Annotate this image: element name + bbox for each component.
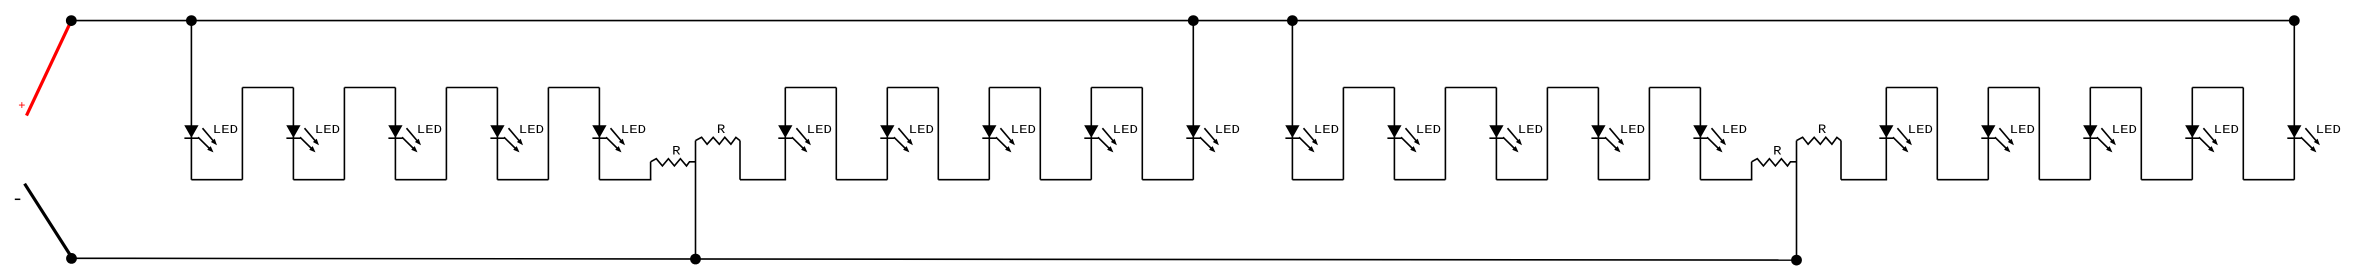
wire: zigzag riser	[1648, 88, 1650, 180]
junction dot: R3/R4 branch at bottom rail	[1791, 255, 1802, 266]
wire: vertical from + rail down through first LED of string	[190, 21, 192, 180]
wire: top horizontal segment	[1091, 87, 1142, 89]
wire: bottom horizontal segment	[395, 179, 446, 181]
wire: top horizontal segment	[1649, 87, 1700, 89]
LED D16	[1879, 126, 1912, 153]
LED D19	[2185, 126, 2218, 153]
LED D1	[184, 126, 217, 153]
wire: bottom horizontal from resistor to LED string	[1841, 179, 1887, 181]
LED D8	[982, 126, 1015, 153]
wire: vertical from resistors R3/R4 junction down to - rail	[1796, 141, 1798, 261]
svg-text:LED: LED	[621, 124, 646, 137]
wire: bottom horizontal segment	[497, 179, 548, 181]
wire: bottom horizontal segment	[836, 179, 887, 181]
wire: LED cathode vertical	[886, 88, 888, 180]
wire: zigzag riser	[937, 88, 939, 180]
wire: zigzag riser	[2242, 88, 2244, 180]
svg-text:LED: LED	[315, 124, 340, 137]
wire: vertical from resistors R1/R2 junction down to - rail	[695, 141, 697, 259]
wire: bottom horizontal segment	[1040, 179, 1091, 181]
wire: LED cathode vertical	[2191, 88, 2193, 180]
wire: LED anode vertical	[496, 88, 498, 180]
wire: LED anode vertical	[598, 88, 600, 180]
svg-text:R: R	[717, 122, 726, 137]
LED D9	[1084, 126, 1117, 153]
svg-text:LED: LED	[417, 124, 442, 137]
svg-text:LED: LED	[1215, 124, 1240, 137]
wire: top horizontal segment	[887, 87, 938, 89]
svg-text:R: R	[1773, 143, 1782, 158]
wire: LED cathode vertical	[2089, 88, 2091, 180]
LED D11	[1285, 126, 1318, 153]
wire: bottom horizontal segment	[2039, 179, 2090, 181]
wire: LED anode vertical	[292, 88, 294, 180]
positive supply lead	[27, 21, 72, 116]
svg-text:R: R	[672, 143, 681, 158]
wire: zigzag riser	[1444, 88, 1446, 180]
wire: vertical stub up to resistor	[1751, 162, 1753, 180]
svg-text:LED: LED	[1722, 124, 1747, 137]
wire: bottom horizontal segment	[1142, 179, 1193, 181]
wire: top horizontal segment	[548, 87, 599, 89]
LED D2	[286, 126, 319, 153]
wire: LED cathode vertical	[1090, 88, 1092, 180]
wire: top horizontal segment	[242, 87, 293, 89]
resistor R3	[1752, 159, 1797, 166]
wire: LED cathode vertical	[1885, 88, 1887, 180]
LED D10	[1186, 126, 1219, 153]
wire: top horizontal segment	[344, 87, 395, 89]
wire: bottom horizontal segment	[293, 179, 344, 181]
wire: bottom horizontal to resistor	[1700, 179, 1752, 181]
junction dot: string 4 tap on top rail	[2289, 15, 2300, 26]
wire: zigzag riser	[343, 88, 345, 180]
wire: top horizontal segment	[1988, 87, 2039, 89]
wire: bottom horizontal segment	[938, 179, 989, 181]
wire: LED cathode vertical	[784, 88, 786, 180]
LED D13	[1489, 126, 1522, 153]
LED D14	[1591, 126, 1624, 153]
LED D7	[880, 126, 913, 153]
wire: zigzag riser	[835, 88, 837, 180]
wire: LED anode vertical	[394, 88, 396, 180]
wire: LED anode vertical	[1393, 88, 1395, 180]
svg-text:LED: LED	[213, 124, 238, 137]
LED D12	[1387, 126, 1420, 153]
svg-text:LED: LED	[1416, 124, 1441, 137]
LED D20	[2287, 126, 2320, 153]
wire: top horizontal segment	[1343, 87, 1394, 89]
wire: bottom horizontal to resistor	[599, 179, 651, 181]
wire: zigzag riser	[241, 88, 243, 180]
wire: bottom horizontal segment	[1496, 179, 1547, 181]
svg-text:LED: LED	[1908, 124, 1933, 137]
svg-text:LED: LED	[1011, 124, 1036, 137]
wire: vertical from + rail down through first LED of string	[1291, 21, 1293, 180]
wire: zigzag riser	[1141, 88, 1143, 180]
junction dot: - lead at bottom rail	[66, 253, 77, 264]
wire: vertical from last LED of string up to + rail	[2293, 21, 2295, 180]
wire: bottom horizontal segment	[2243, 179, 2294, 181]
LED D17	[1981, 126, 2014, 153]
negative supply lead	[25, 184, 73, 259]
LED D4	[490, 126, 523, 153]
wire: zigzag riser	[1546, 88, 1548, 180]
wire: top horizontal segment	[2090, 87, 2141, 89]
wire: LED cathode vertical	[988, 88, 990, 180]
LED D6	[778, 126, 811, 153]
wire: bottom horizontal segment	[1292, 179, 1343, 181]
svg-text:LED: LED	[1518, 124, 1543, 137]
wire: bottom horizontal from resistor to LED string	[740, 179, 786, 181]
wire: zigzag riser	[2038, 88, 2040, 180]
wire: top horizontal segment	[2192, 87, 2243, 89]
svg-text:LED: LED	[1113, 124, 1138, 137]
LED D3	[388, 126, 421, 153]
junction dot: string 1 tap on top rail	[186, 15, 197, 26]
wire: bottom horizontal segment	[1394, 179, 1445, 181]
svg-text:LED: LED	[2214, 124, 2239, 137]
wire: top positive supply rail	[71, 20, 2294, 22]
svg-text:LED: LED	[909, 124, 934, 137]
wire: LED anode vertical	[1495, 88, 1497, 180]
svg-text:LED: LED	[1314, 124, 1339, 137]
resistor R1	[651, 159, 696, 166]
junction dot: + lead at top rail	[66, 15, 77, 26]
wire: top horizontal segment	[785, 87, 836, 89]
junction dot: string 3 tap on top rail	[1287, 15, 1298, 26]
wire: top horizontal segment	[1547, 87, 1598, 89]
svg-text:LED: LED	[2010, 124, 2035, 137]
wire: LED anode vertical	[1699, 88, 1701, 180]
junction dot: R1/R2 branch at bottom rail	[690, 254, 701, 265]
wire: top horizontal segment	[1445, 87, 1496, 89]
wire: top horizontal segment	[989, 87, 1040, 89]
wire: LED anode vertical	[1597, 88, 1599, 180]
wire: bottom horizontal segment	[1937, 179, 1988, 181]
svg-text:+: +	[18, 99, 25, 113]
wire: zigzag riser	[2140, 88, 2142, 180]
wire: vertical stub up to resistor	[650, 162, 652, 180]
LED D18	[2083, 126, 2116, 153]
svg-text:LED: LED	[2316, 124, 2341, 137]
wire: bottom horizontal segment	[191, 179, 242, 181]
wire: zigzag riser	[1342, 88, 1344, 180]
wire: top horizontal segment	[1886, 87, 1937, 89]
wire: vertical stub down from resistor	[739, 141, 741, 180]
wire: vertical stub down from resistor	[1840, 141, 1842, 180]
svg-text:LED: LED	[2112, 124, 2137, 137]
resistor R2	[696, 137, 741, 144]
junction dot: string 2 tap on top rail	[1188, 15, 1199, 26]
svg-text:LED: LED	[519, 124, 544, 137]
svg-text:LED: LED	[807, 124, 832, 137]
wire: top horizontal segment	[446, 87, 497, 89]
wire: zigzag riser	[445, 88, 447, 180]
wire: zigzag riser	[547, 88, 549, 180]
svg-text:R: R	[1818, 122, 1827, 137]
wire: LED cathode vertical	[1987, 88, 1989, 180]
wire: bottom horizontal segment	[2141, 179, 2192, 181]
wire: vertical from last LED of string up to + rail	[1192, 21, 1194, 180]
label - on negative lead	[15, 198, 20, 200]
resistor R4	[1797, 137, 1842, 144]
LED D15	[1693, 126, 1726, 153]
svg-text:LED: LED	[1620, 124, 1645, 137]
wire: bottom horizontal segment	[1598, 179, 1649, 181]
wire: zigzag riser	[1039, 88, 1041, 180]
wire: bottom negative supply rail	[72, 258, 1797, 260]
LED D5	[592, 126, 625, 153]
wire: zigzag riser	[1936, 88, 1938, 180]
